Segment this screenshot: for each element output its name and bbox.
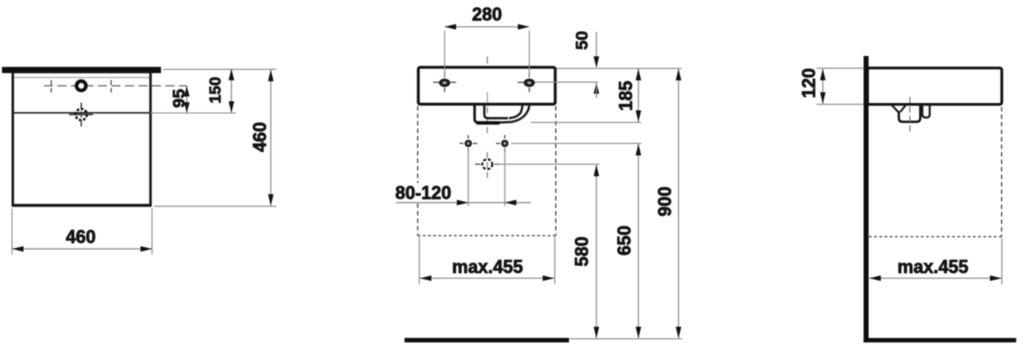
overflow vertical centerline <box>80 103 82 128</box>
dim 280 ext left <box>444 31 446 79</box>
dashed hidden outline left <box>417 106 419 183</box>
dim 460 bottom arrows <box>12 246 24 252</box>
dim 50 lower stem <box>595 82 597 98</box>
dim 580 line <box>595 165 597 339</box>
fixing hole left <box>465 141 471 147</box>
tap cross right <box>110 80 112 93</box>
dashed hidden outline right <box>555 106 557 236</box>
svg-text:120: 120 <box>799 68 819 98</box>
dim 280 arrows <box>445 24 457 30</box>
svg-text:460: 460 <box>250 122 270 152</box>
dim 280 line <box>445 26 530 28</box>
dim 650 arrows <box>636 144 642 156</box>
tap cross left <box>50 80 52 93</box>
dim 185 line <box>637 69 639 122</box>
dim 900 arrows <box>676 69 682 81</box>
floor bar middle <box>405 338 570 343</box>
overflow hole <box>76 109 87 120</box>
fixing hole right <box>502 141 508 147</box>
dim 185 arrows <box>636 69 642 81</box>
dim 460 right line <box>270 70 272 206</box>
basin outline <box>13 72 151 205</box>
drain front outer right <box>500 105 530 123</box>
tap hole right <box>525 80 534 87</box>
faucet centerline <box>44 85 187 87</box>
side drain funnel <box>892 105 906 112</box>
dim max455 right arrows <box>869 275 881 281</box>
floor ext line <box>570 338 683 340</box>
svg-text:max.455: max.455 <box>452 257 523 277</box>
dim 50 up arrow <box>594 82 600 94</box>
drain centerline <box>486 57 488 64</box>
dim max455 mid line <box>420 277 554 279</box>
rim inner line <box>13 77 150 79</box>
dim 120 ext bottom <box>817 103 865 105</box>
deck divider line <box>14 112 151 114</box>
dim 95 line <box>186 86 188 113</box>
drain front inner left <box>484 105 508 119</box>
tap hole left <box>440 80 449 87</box>
overflow crosshair ticks <box>69 114 93 116</box>
wall line <box>864 56 869 342</box>
dim 120 arrows <box>820 69 826 81</box>
dim 460 right ext top <box>163 68 277 70</box>
drain bottom ext <box>531 121 641 123</box>
svg-text:280: 280 <box>472 5 502 25</box>
dashed depth line horizontal <box>869 236 1002 238</box>
basin top ext line <box>557 67 682 69</box>
drain hole ext line <box>494 163 600 165</box>
dim 280 ext right <box>528 31 530 79</box>
side drain centerline <box>909 97 911 132</box>
dim max455 mid ext left <box>418 237 420 284</box>
fixing hole ext line <box>511 142 642 144</box>
dim 50 upper stem <box>595 32 597 67</box>
dim 150 line <box>230 69 232 113</box>
dim max455 right line <box>869 277 1001 279</box>
divider extension <box>151 112 237 114</box>
basin front outline <box>418 67 555 104</box>
basin side outline <box>868 68 1002 104</box>
dim 580 arrows <box>594 165 600 177</box>
svg-text:580: 580 <box>572 236 592 266</box>
drain front bottom thick <box>477 121 500 124</box>
tap hole right line to 50 dim <box>535 81 598 83</box>
side drain tab <box>922 105 929 118</box>
dim max455 mid ext right <box>554 237 556 284</box>
dim 80-120 arrows <box>457 200 469 206</box>
tap hole left ticks <box>433 81 439 83</box>
dim 460 right ext bottom <box>154 205 277 207</box>
svg-text:650: 650 <box>614 225 634 255</box>
drain hole <box>482 159 492 169</box>
wall bar <box>2 67 161 73</box>
dim 460 bottom ext left <box>11 209 13 255</box>
tap hole right ticks <box>518 81 524 83</box>
dim 900 line <box>678 69 680 338</box>
svg-text:150: 150 <box>208 77 225 104</box>
dim 460 bottom line <box>12 248 152 250</box>
dim 80-120 line <box>396 202 531 204</box>
svg-text:50: 50 <box>573 31 592 50</box>
dim 460 right arrows <box>268 70 274 82</box>
faucet hole <box>77 81 86 90</box>
dashed depth line vertical <box>1001 107 1003 237</box>
side drain trap <box>899 105 921 122</box>
dim 120 ext top <box>817 67 865 69</box>
svg-text:95: 95 <box>169 89 188 108</box>
dim 95 arrows <box>184 86 190 97</box>
floor bar right <box>864 338 1017 342</box>
dim 460 bottom ext right <box>151 209 153 255</box>
dim 80-120 ext right <box>504 148 506 207</box>
svg-text:80-120: 80-120 <box>395 183 451 203</box>
svg-text:900: 900 <box>655 186 675 216</box>
dim 650 line <box>637 144 639 338</box>
svg-text:max.455: max.455 <box>897 257 968 277</box>
dim 50 down arrow <box>594 56 600 68</box>
dim max455 mid arrows <box>420 275 432 281</box>
dim max455 right ext <box>1001 238 1003 285</box>
svg-text:460: 460 <box>66 227 96 247</box>
drain front inner right <box>509 105 523 119</box>
dashed hidden outline bottom <box>418 235 556 237</box>
dim 150 arrows <box>229 69 235 81</box>
svg-text:185: 185 <box>616 81 636 111</box>
dim 80-120 ext left <box>467 148 469 207</box>
drain front outer left <box>475 104 500 123</box>
dim 120 line <box>822 69 824 104</box>
